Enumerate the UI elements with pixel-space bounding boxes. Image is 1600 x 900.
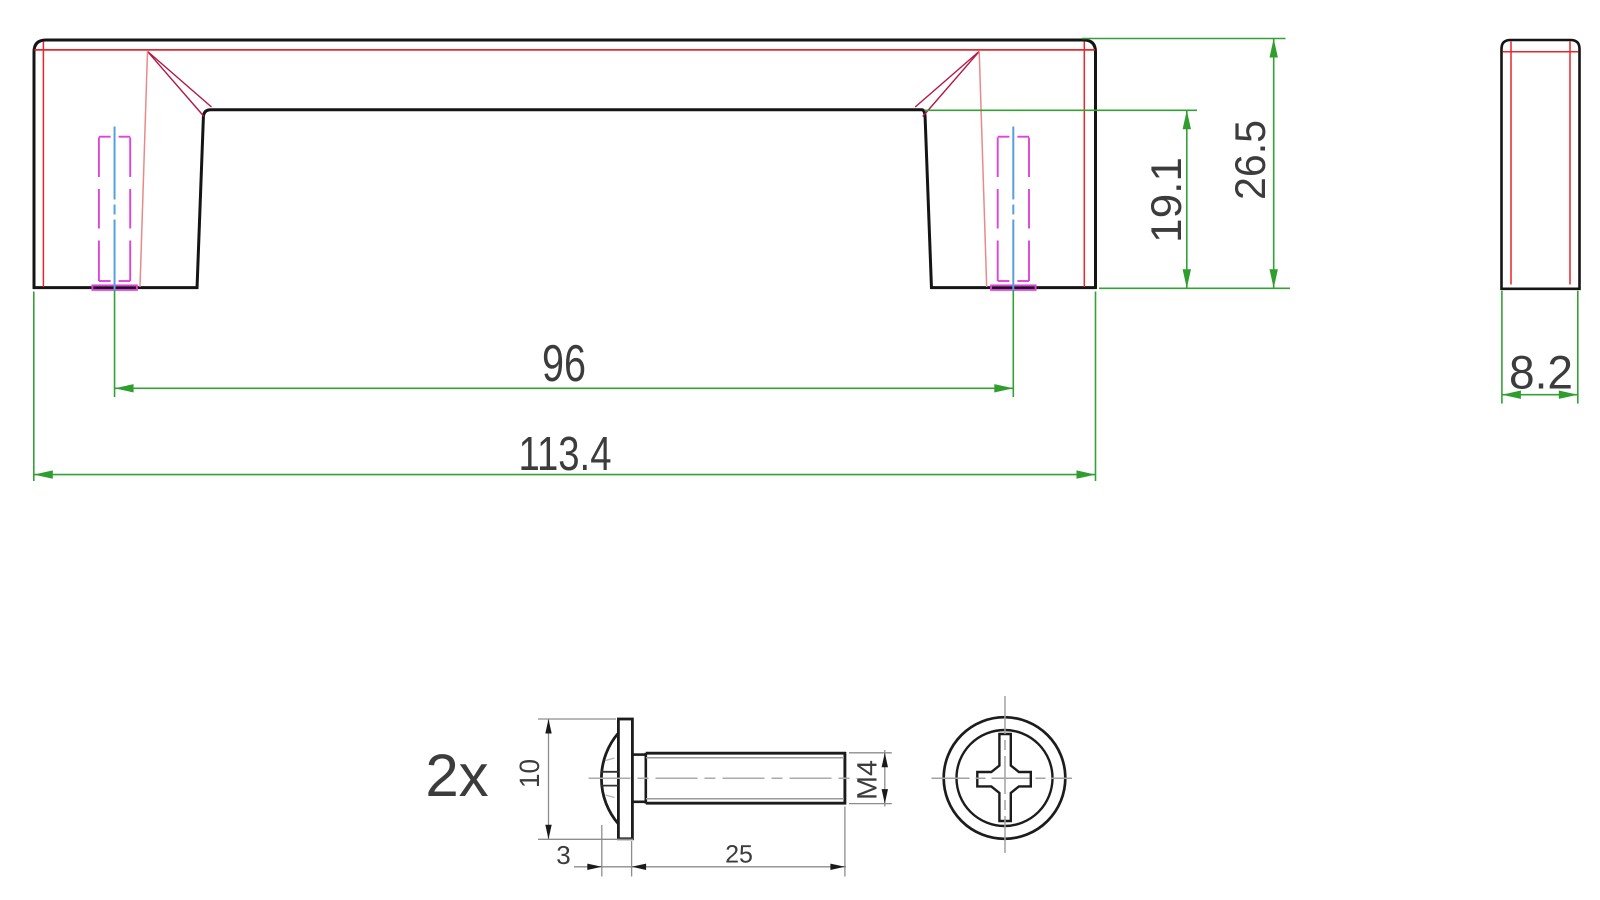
right crimson fan line 1 (923, 51, 980, 116)
svg-text:M4: M4 (852, 760, 883, 800)
svg-text:8.2: 8.2 (1509, 346, 1573, 399)
dim 96 line (115, 387, 1014, 389)
26.5 arrows (1270, 39, 1278, 58)
phillips view horizontal center line (932, 777, 1073, 779)
dim 10 arrows (545, 719, 551, 839)
left hole counterbore opening (magenta) (92, 285, 136, 290)
svg-text:113.4: 113.4 (519, 428, 612, 481)
96 arrows (115, 384, 134, 392)
handle right foot bottom edge (930, 286, 1097, 289)
side view red horizontal (1503, 51, 1579, 53)
left salmon sloped chamfer line (140, 51, 148, 287)
red chamfer right vertical (1083, 42, 1085, 288)
screw axis center line (589, 777, 858, 779)
left screw hole hidden outline (magenta dashed) (99, 137, 130, 281)
svg-text:26.5: 26.5 (1227, 120, 1275, 200)
dim 19.1 extension line top (925, 109, 1198, 111)
screw head flange (618, 719, 632, 839)
svg-text:10: 10 (514, 759, 545, 788)
dim M4 extension lines (849, 750, 892, 807)
screw neck (632, 753, 645, 756)
dim 8.2 arrows (1502, 391, 1578, 399)
handle inner profile (197, 110, 932, 289)
svg-text:96: 96 (542, 335, 586, 393)
dim 113.4 line (34, 474, 1096, 476)
red chamfer horizontal line (35, 49, 1096, 51)
side view outline (1502, 40, 1580, 289)
red chamfer left vertical (42, 42, 44, 288)
thread minor diameter lines (646, 757, 844, 759)
dim 26.5 extension line top (1082, 38, 1286, 40)
head inner circle (957, 730, 1053, 826)
right crimson fan line 2 (915, 51, 979, 107)
side view red vertical right (1569, 42, 1571, 285)
dim 3 / 25 arrows (587, 864, 845, 870)
left hole blue center line (114, 127, 116, 292)
dim 96 extension lines (114, 291, 116, 398)
dim 113.4 extension lines (33, 292, 35, 482)
screw shaft outline (646, 752, 846, 755)
right hole counterbore opening (magenta) (991, 285, 1036, 290)
head outer circle (944, 717, 1066, 839)
left crimson fan line 1 (148, 51, 205, 116)
113.4 arrows (34, 470, 53, 478)
right salmon sloped chamfer line (979, 51, 987, 287)
phillips cross recess (977, 734, 1031, 821)
phillips recess side-view slot lines (600, 771, 618, 773)
dim 3 / 25 extension lines (574, 807, 846, 877)
thread start line (644, 753, 647, 804)
svg-text:25: 25 (725, 841, 753, 869)
left crimson fan line 2 (148, 51, 212, 107)
dim 10 extension lines (538, 719, 633, 839)
right hole blue center line (1012, 127, 1014, 292)
dim 19.1 line (1186, 110, 1188, 288)
handle left foot bottom edge (33, 286, 199, 289)
phillips view vertical center line (1004, 696, 1006, 853)
side view red vertical left (1510, 42, 1512, 285)
svg-text:3: 3 (556, 840, 570, 870)
green arrowheads (34, 39, 1278, 479)
dim M4 arrows (882, 753, 888, 804)
right screw hole hidden outline (magenta dashed) (998, 137, 1029, 281)
19.1 arrows (1183, 110, 1191, 129)
svg-text:19.1: 19.1 (1143, 157, 1191, 243)
screw dome head arc (601, 733, 618, 824)
dim 26.5 line (1273, 39, 1275, 289)
shared bottom extension line for 19.1 / 26.5 (1099, 287, 1290, 289)
svg-text:2x: 2x (425, 742, 488, 809)
dim 8.2 extension lines (1502, 291, 1578, 404)
handle outer outline (34, 40, 1096, 289)
